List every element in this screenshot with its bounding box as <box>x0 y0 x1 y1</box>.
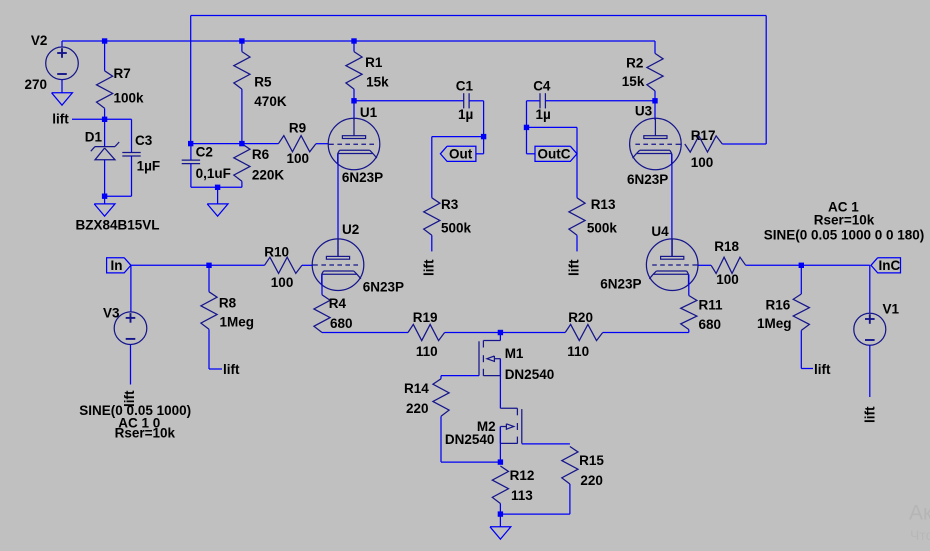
svg-text:U3: U3 <box>635 104 653 119</box>
svg-text:100: 100 <box>287 151 310 166</box>
svg-text:1Meg: 1Meg <box>220 314 255 329</box>
svg-text:R1: R1 <box>365 55 383 70</box>
svg-text:680: 680 <box>699 317 722 332</box>
svg-text:DN2540: DN2540 <box>445 432 495 447</box>
svg-text:C2: C2 <box>196 145 213 160</box>
svg-text:lift: lift <box>814 362 831 377</box>
svg-text:lift: lift <box>223 362 240 377</box>
svg-text:lift: lift <box>422 259 437 276</box>
svg-text:R16: R16 <box>766 297 791 312</box>
svg-text:C3: C3 <box>135 133 153 148</box>
svg-text:500k: 500k <box>587 220 618 235</box>
svg-text:C1: C1 <box>456 78 474 93</box>
svg-text:R2: R2 <box>626 55 643 70</box>
svg-text:V3: V3 <box>103 306 120 321</box>
svg-text:113: 113 <box>511 488 533 503</box>
svg-text:Rser=10k: Rser=10k <box>814 213 875 228</box>
svg-text:100: 100 <box>271 275 294 290</box>
svg-text:1µ: 1µ <box>536 107 551 122</box>
svg-text:15k: 15k <box>622 74 645 89</box>
svg-text:lift: lift <box>567 259 582 276</box>
svg-text:R5: R5 <box>254 75 272 90</box>
svg-text:DN2540: DN2540 <box>505 367 555 382</box>
svg-text:D1: D1 <box>85 130 103 145</box>
svg-text:R20: R20 <box>568 310 593 325</box>
svg-text:R15: R15 <box>579 453 604 468</box>
svg-text:R19: R19 <box>413 310 438 325</box>
svg-text:15k: 15k <box>366 75 389 90</box>
svg-text:6N23P: 6N23P <box>342 170 383 185</box>
svg-text:100k: 100k <box>114 90 145 105</box>
svg-text:220: 220 <box>580 473 603 488</box>
svg-text:1µF: 1µF <box>137 159 161 174</box>
svg-text:R8: R8 <box>219 296 237 311</box>
svg-text:U4: U4 <box>651 224 669 239</box>
svg-text:R9: R9 <box>289 121 306 136</box>
svg-text:R12: R12 <box>510 468 535 483</box>
svg-text:BZX84B15VL: BZX84B15VL <box>76 218 160 233</box>
svg-text:6N23P: 6N23P <box>600 277 641 292</box>
svg-text:R6: R6 <box>252 147 270 162</box>
svg-text:6N23P: 6N23P <box>363 280 404 295</box>
svg-text:270: 270 <box>25 77 48 92</box>
svg-text:U2: U2 <box>342 222 359 237</box>
svg-text:100: 100 <box>691 155 714 170</box>
svg-text:R3: R3 <box>441 197 459 212</box>
svg-text:R13: R13 <box>591 197 616 212</box>
svg-text:In: In <box>111 258 123 273</box>
svg-text:R17: R17 <box>691 128 716 143</box>
svg-text:R11: R11 <box>699 297 724 312</box>
svg-text:R10: R10 <box>264 245 289 260</box>
svg-text:Out: Out <box>449 147 473 162</box>
svg-text:500k: 500k <box>441 220 472 235</box>
svg-text:C4: C4 <box>533 78 551 93</box>
svg-text:680: 680 <box>330 316 353 331</box>
svg-text:R14: R14 <box>404 381 429 396</box>
svg-text:lift: lift <box>52 112 69 127</box>
svg-text:Rser=10k: Rser=10k <box>115 426 176 441</box>
svg-text:InC: InC <box>879 258 901 273</box>
svg-text:1Meg: 1Meg <box>757 316 792 331</box>
svg-text:110: 110 <box>416 344 438 359</box>
svg-text:6N23P: 6N23P <box>627 172 668 187</box>
svg-text:V1: V1 <box>883 301 900 316</box>
svg-text:V2: V2 <box>31 33 48 48</box>
svg-text:100: 100 <box>716 272 739 287</box>
svg-text:470K: 470K <box>254 94 287 109</box>
svg-text:110: 110 <box>567 344 589 359</box>
svg-text:R7: R7 <box>114 66 131 81</box>
svg-text:M1: M1 <box>505 346 524 361</box>
svg-text:220K: 220K <box>252 167 285 182</box>
svg-text:SINE(0 0.05 1000 0 0 180): SINE(0 0.05 1000 0 0 180) <box>764 228 925 243</box>
svg-text:Что: Что <box>910 527 930 543</box>
svg-text:R4: R4 <box>329 296 347 311</box>
svg-text:OutC: OutC <box>538 147 571 162</box>
svg-text:0,1uF: 0,1uF <box>196 166 231 181</box>
svg-text:Аку: Аку <box>909 501 930 524</box>
svg-text:220: 220 <box>406 401 429 416</box>
svg-text:1µ: 1µ <box>458 107 473 122</box>
svg-text:R18: R18 <box>714 239 739 254</box>
svg-text:U1: U1 <box>360 105 378 120</box>
svg-text:lift: lift <box>863 406 878 423</box>
